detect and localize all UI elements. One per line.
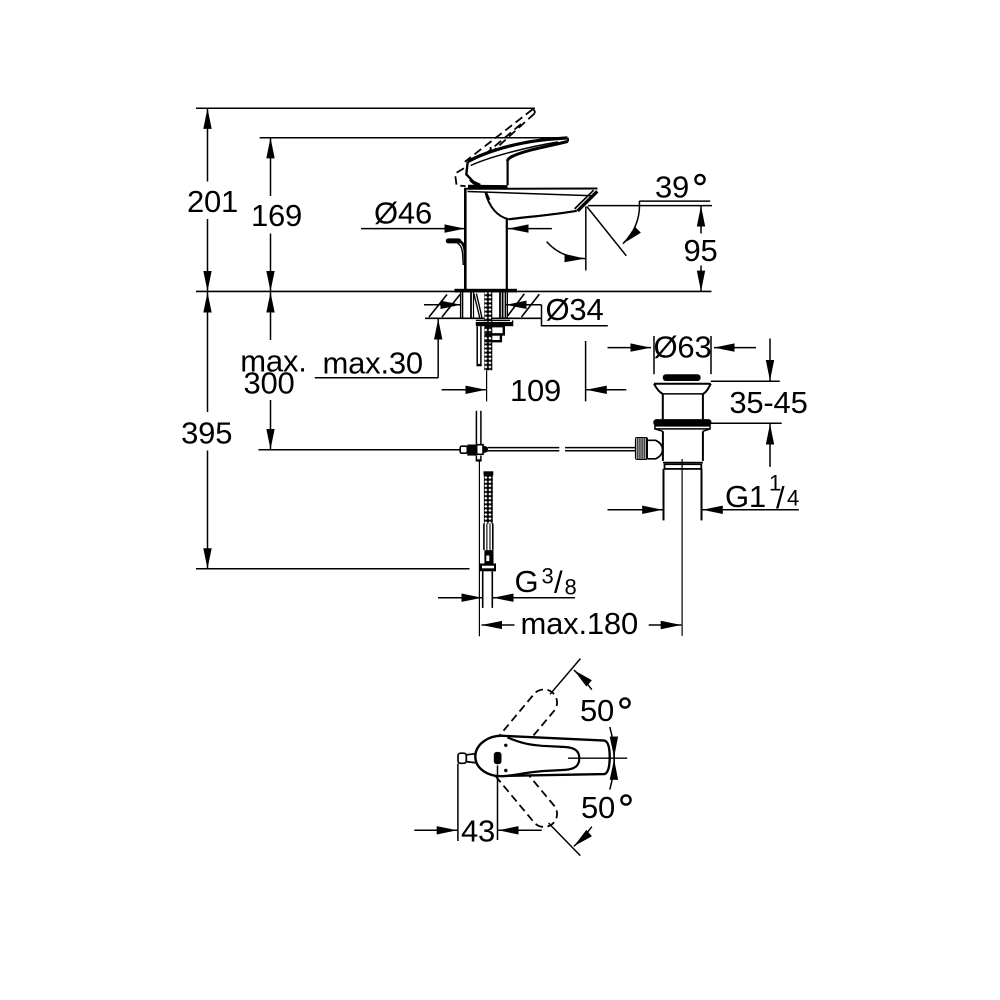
shank right wall double bbox=[499, 292, 501, 318]
knurled knob bbox=[635, 437, 648, 460]
50 deg upper diagonal bbox=[550, 659, 580, 695]
svg-text:Ø63: Ø63 bbox=[654, 330, 712, 365]
rod below cross bbox=[475, 456, 477, 461]
svg-text:max.30: max.30 bbox=[323, 346, 423, 381]
svg-text:39: 39 bbox=[655, 170, 689, 205]
dimension max.300 bbox=[270, 292, 272, 340]
dimension Ø46 bbox=[361, 228, 465, 230]
dimension 95 bbox=[588, 205, 712, 207]
svg-text:35-45: 35-45 bbox=[729, 385, 807, 420]
pop-up rod elbow bbox=[460, 241, 466, 267]
pop-up rod vertical above cross bbox=[475, 411, 477, 445]
drain body walls bbox=[662, 431, 664, 461]
deck top line bbox=[196, 290, 712, 292]
ref line top of dashed handle (201) bbox=[196, 107, 535, 109]
drain centerline bbox=[681, 459, 683, 636]
base bottom-left arc bbox=[470, 180, 487, 187]
dimension max.30 bbox=[315, 377, 438, 379]
395 bottom ref line bbox=[196, 568, 470, 570]
hole left wall bbox=[460, 292, 462, 318]
pull rod top view bbox=[458, 753, 466, 763]
pivot slot bbox=[494, 752, 502, 764]
pull rod below deck bbox=[476, 326, 478, 366]
threaded shank bbox=[484, 292, 492, 370]
dimension G3/8 bbox=[438, 597, 482, 599]
aerator face inner bbox=[575, 190, 594, 209]
G3/8 tube bbox=[482, 571, 484, 608]
small swivel arc with arrow bbox=[547, 242, 585, 259]
svg-text:G: G bbox=[515, 564, 539, 599]
ref line top of solid handle (169) bbox=[260, 137, 566, 139]
dimension 169 vertical bbox=[270, 138, 272, 196]
knob cylinder bbox=[648, 440, 663, 459]
svg-text:G1: G1 bbox=[725, 479, 766, 514]
dimension G1 1/4 bbox=[608, 509, 663, 511]
hole right wall bbox=[504, 292, 506, 318]
50 deg lower diagonal bbox=[549, 823, 581, 856]
aerator face outer bbox=[578, 191, 598, 211]
svg-text:/: / bbox=[776, 480, 785, 515]
39 deg: leader horizontal bbox=[639, 200, 710, 202]
svg-text:395: 395 bbox=[181, 416, 232, 451]
svg-text:95: 95 bbox=[683, 233, 717, 268]
pull rod curve in hole bbox=[474, 294, 480, 319]
horizontal pop-up rod to drain bbox=[488, 447, 559, 449]
svg-text:50: 50 bbox=[581, 790, 615, 825]
dashed rotated handle down bbox=[488, 750, 558, 827]
hidden cartridge dashed line bbox=[490, 147, 500, 183]
svg-text:3: 3 bbox=[542, 564, 554, 589]
smooth hose section bbox=[483, 524, 485, 550]
dimension Ø34 leader bbox=[424, 304, 461, 306]
drain gasket bbox=[653, 419, 711, 426]
dimension 43 bbox=[457, 764, 459, 842]
mounting nut step 1 bbox=[485, 326, 504, 334]
stream extension line bbox=[585, 341, 587, 401]
braided hose bbox=[484, 475, 493, 524]
neck fillet curve bbox=[486, 193, 509, 220]
svg-text:Ø46: Ø46 bbox=[374, 196, 432, 231]
svg-text:300: 300 bbox=[243, 366, 294, 401]
svg-text:43: 43 bbox=[461, 814, 495, 849]
deck bottom line bbox=[425, 317, 541, 319]
dimension max.180 bbox=[482, 624, 515, 626]
top view handle outline bbox=[475, 736, 609, 776]
mounting nut step 2 bbox=[485, 334, 501, 341]
dimension Ø63 bbox=[608, 347, 652, 349]
svg-text:169: 169 bbox=[251, 198, 302, 233]
handle underside bbox=[508, 142, 568, 162]
spout underside bbox=[509, 211, 577, 220]
Ø63 extension lines bbox=[653, 336, 655, 374]
drain plug cap bbox=[663, 374, 701, 381]
dashed rotated handle up bbox=[488, 689, 558, 766]
svg-text:109: 109 bbox=[510, 373, 561, 408]
handle back face bbox=[466, 162, 480, 185]
drain flange plate bbox=[655, 426, 710, 429]
svg-text:50: 50 bbox=[580, 693, 614, 728]
shank left wall double bbox=[470, 292, 472, 318]
centerline below cross bbox=[478, 461, 480, 636]
handle tip cap bbox=[567, 138, 570, 142]
handle base bottom shadow bbox=[468, 185, 508, 189]
hose nut bbox=[480, 564, 496, 572]
centerline bbox=[568, 757, 627, 759]
rod cross right wedge bbox=[483, 445, 488, 453]
39 deg: arc with arrow bbox=[623, 201, 640, 244]
39 deg: flow diagonal line bbox=[587, 207, 627, 256]
svg-text:8: 8 bbox=[565, 575, 577, 600]
dashed raised handle ghost bbox=[455, 109, 535, 186]
handle top edge (thick) bbox=[468, 138, 568, 162]
39 deg: vertical ref line at spout tip bbox=[585, 207, 587, 271]
solid handle (white filled) bbox=[466, 138, 567, 185]
svg-text:/: / bbox=[554, 565, 563, 600]
dot upper bbox=[504, 744, 507, 747]
svg-text:max.180: max.180 bbox=[521, 606, 639, 641]
drain pipe bbox=[663, 469, 665, 521]
deck hatch right bbox=[508, 294, 524, 316]
drain flange bbox=[654, 383, 711, 385]
body top line bbox=[464, 188, 598, 190]
drain band bbox=[665, 464, 702, 469]
dimension 201 vertical bbox=[207, 108, 209, 181]
rod cross white block bbox=[477, 445, 483, 455]
rod cross dark block bbox=[467, 445, 476, 456]
handle base right edge bbox=[507, 160, 509, 186]
faucet base dark bar bbox=[455, 289, 517, 293]
dimension 35-45 bbox=[711, 380, 780, 382]
hose fitting bbox=[484, 550, 493, 563]
dashed line inside body bbox=[486, 193, 491, 204]
svg-text:4: 4 bbox=[787, 486, 799, 511]
shank centerline bbox=[486, 370, 488, 401]
washer plate under deck bbox=[476, 319, 510, 321]
dot lower bbox=[504, 769, 507, 772]
body left edge bbox=[464, 188, 467, 290]
svg-text:Ø34: Ø34 bbox=[546, 292, 604, 327]
dimension 395 bbox=[207, 292, 209, 412]
rod cross left stub bbox=[460, 446, 467, 453]
hose braid top ferrule bbox=[484, 471, 494, 475]
body front edge bbox=[506, 219, 508, 290]
pop-up rod knob bbox=[446, 238, 461, 243]
max300 bottom ref line bbox=[259, 449, 460, 451]
handle top inner line bbox=[471, 142, 558, 166]
50 deg upper arc bbox=[574, 670, 592, 690]
top view lever inner outline bbox=[508, 738, 580, 776]
dimension 109 bbox=[442, 389, 486, 391]
deck hatch left bbox=[429, 295, 447, 318]
50 deg lower arc bbox=[574, 827, 592, 847]
svg-text:201: 201 bbox=[187, 184, 238, 219]
faucet body with spout (white filled) bbox=[465, 189, 597, 291]
body top second line bbox=[468, 192, 593, 196]
